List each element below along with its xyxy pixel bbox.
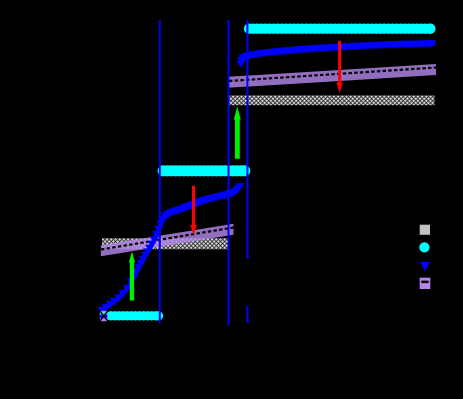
- legend blue triangle: [420, 262, 430, 272]
- cyan plateau top: [244, 24, 436, 34]
- legend cyan circle: [419, 242, 429, 252]
- legend purple square: [420, 278, 431, 289]
- green arrow up upper: [234, 107, 241, 159]
- cyan plateau middle: [158, 165, 251, 176]
- cyan plateau bottom: [106, 311, 163, 320]
- phase band fragment bottom-left: [100, 311, 108, 321]
- vertical line T2: [228, 20, 230, 326]
- dashed line upper: [229, 68, 436, 82]
- vertical line T3 upper: [246, 20, 248, 259]
- purple band upper: [228, 64, 436, 88]
- green arrow up middle: [129, 252, 135, 301]
- red arrow down upper: [337, 41, 343, 93]
- purple band middle: [101, 224, 234, 257]
- data curve upper branch: [236, 40, 436, 68]
- vertical line T1: [159, 20, 161, 323]
- gray hatched band middle: [102, 238, 228, 249]
- dashed line middle: [101, 228, 234, 250]
- data curve middle branch: [97, 183, 244, 314]
- vertical line T3 lower: [246, 306, 248, 323]
- legend gray square: [420, 225, 430, 235]
- red arrow down middle: [190, 186, 197, 235]
- gray hatched band upper: [228, 95, 435, 105]
